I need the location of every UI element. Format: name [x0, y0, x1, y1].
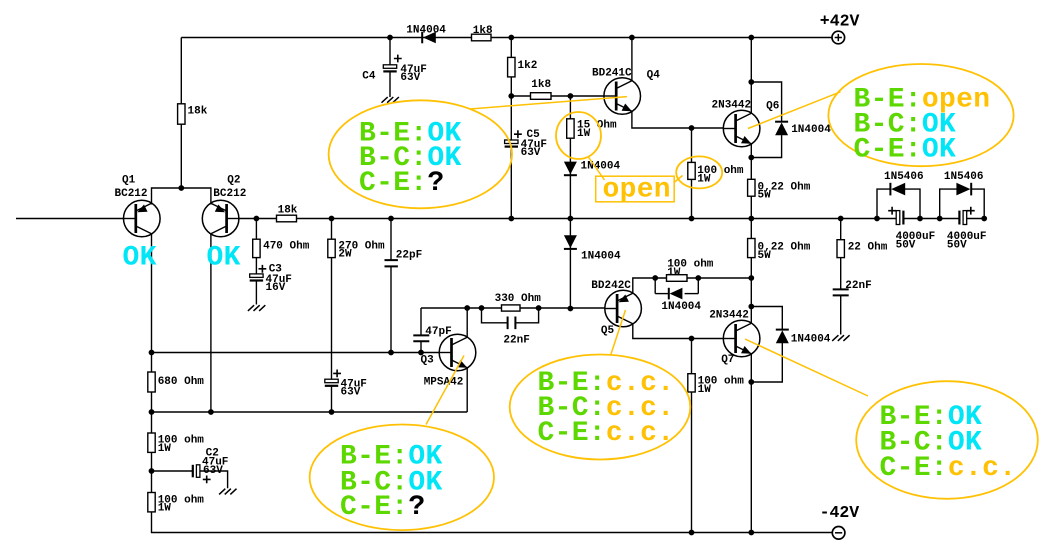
- wire Q1 collector / left column / -42V bottom rail: [152, 233, 833, 533]
- capacitor C3 47uF 16V: [250, 274, 263, 281]
- svg-text:18k: 18k: [188, 106, 208, 118]
- svg-text:1k8: 1k8: [531, 79, 551, 91]
- svg-text:BC212: BC212: [213, 188, 246, 200]
- wire Q3 collector to Q5 base: [467, 307, 605, 309]
- resistor 680 Ohm: [148, 372, 155, 392]
- plus C3: [259, 265, 267, 273]
- svg-text:C-E:c.c.: C-E:c.c.: [880, 453, 1017, 484]
- wire Q7 protection diode upper: [751, 307, 782, 331]
- wire bias diode chain branch: [569, 96, 571, 309]
- diode 1N4004 bias chain lower: [564, 235, 577, 249]
- capacitor C5 47uF 63V: [505, 140, 518, 147]
- svg-text:open: open: [603, 175, 671, 206]
- svg-text:18k: 18k: [278, 204, 298, 216]
- node Q6 collector / diode: [748, 79, 754, 85]
- node diode chain / mid rail: [568, 216, 574, 222]
- node 47uF / lower line: [329, 409, 335, 415]
- svg-text:1k2: 1k2: [518, 60, 538, 72]
- wire 22 Ohm branch: [840, 219, 842, 290]
- resistor 470 Ohm: [253, 239, 260, 257]
- annotation ellipse around 100 ohm: [676, 156, 722, 188]
- wire 47uF cap to lower line: [331, 386, 333, 412]
- svg-text:+42V: +42V: [820, 11, 860, 30]
- wire 22pF branch lower: [390, 266, 392, 352]
- svg-text:C-E:?: C-E:?: [340, 492, 426, 523]
- diode 1N4004 top rail: [422, 32, 436, 44]
- plus C4: [394, 55, 402, 63]
- svg-text:Q1: Q1: [122, 175, 136, 187]
- svg-text:C-E:OK: C-E:OK: [854, 135, 957, 166]
- annotation ellipse Q5 c.c.: [510, 355, 691, 460]
- node Q7 emitter / bottom rail: [748, 530, 754, 536]
- diode 1N4004 bias chain upper: [564, 162, 577, 176]
- wire Q4 collector lead: [631, 38, 633, 82]
- svg-text:2W: 2W: [338, 248, 352, 260]
- node 22pF / mid rail: [388, 216, 394, 222]
- annotation box open: [596, 176, 675, 202]
- capacitor 47pF: [413, 335, 429, 341]
- node 680 Ohm / lower line: [149, 409, 155, 415]
- node C2 branch: [149, 468, 155, 474]
- svg-text:63V: 63V: [400, 72, 420, 84]
- wire Q7 emitter down to bottom rail: [750, 354, 752, 533]
- node 270 Ohm / mid rail: [329, 216, 335, 222]
- capacitor 4000uF 50V left (in rail): [896, 211, 903, 225]
- wire 100 ohm 1W branch Q7 base to bottom rail: [691, 339, 693, 533]
- node 100ohm-diode left: [652, 275, 658, 281]
- svg-text:BC212: BC212: [115, 188, 148, 200]
- svg-text:OK: OK: [123, 242, 157, 273]
- annotation ellipse Q4 B-E:OK B-C:OK C-E:?: [329, 100, 512, 208]
- svg-text:1N5406: 1N5406: [884, 171, 924, 183]
- node diode chain / Q5 base: [568, 306, 574, 312]
- wire Q5 emitter to rail: [633, 278, 752, 293]
- wire 100 ohm 1W branch Q4 emitter: [691, 128, 693, 219]
- svg-text:680 Ohm: 680 Ohm: [158, 376, 205, 388]
- ground under C3: [248, 305, 265, 311]
- node Q5 emitter rail: [748, 275, 754, 281]
- resistor 1k8 top rail: [472, 34, 492, 41]
- svg-text:C-E:c.c.: C-E:c.c.: [538, 418, 675, 449]
- wire from 1N4004 cathode: [685, 293, 699, 295]
- svg-text:C4: C4: [362, 71, 376, 83]
- leader ellipse to Q6: [748, 92, 841, 129]
- capacitor 22nF (horizontal, with 330 Ohm): [508, 317, 516, 330]
- annotation ellipse Q3 B-E:OK B-C:OK C-E:?: [310, 425, 494, 531]
- resistor 100 ohm 1W Q7 base: [688, 374, 695, 392]
- wire C5 to mid rail: [510, 147, 512, 219]
- transistor Q1 BC212 (PNP): [124, 200, 161, 237]
- diode 1N4004 across Q6: [775, 122, 788, 136]
- wire Q3 emitter lead: [466, 368, 468, 412]
- wire Q1-Q2 emitter tie: [152, 187, 211, 189]
- wire Q6 emitter through 0.22 Ohm to output rail: [750, 144, 752, 219]
- wire 22nF left stub: [482, 308, 508, 323]
- resistor 18k mid: [277, 215, 297, 222]
- diode 1N5406 left: [890, 183, 905, 196]
- resistor 0.22 Ohm 5W lower: [748, 239, 755, 258]
- svg-text:470 Ohm: 470 Ohm: [263, 241, 310, 253]
- terminal -42V: [832, 527, 845, 540]
- svg-text:1W: 1W: [577, 128, 591, 140]
- transistor Q5 BD242C (PNP): [605, 290, 642, 327]
- svg-text:1W: 1W: [158, 443, 172, 455]
- node 100 ohm / bottom rail: [689, 530, 695, 536]
- node 330 Ohm right: [536, 305, 542, 311]
- resistor 100 ohm 1W Q5: [667, 275, 688, 282]
- svg-text:C-E:?: C-E:?: [359, 168, 445, 199]
- node Q4 collector / top rail: [629, 35, 635, 41]
- wire 1k2 node to Q4 base: [511, 95, 604, 97]
- wire 47pF top to Q3 collector node: [421, 307, 467, 309]
- transistor Q7 2N3442 (NPN): [723, 320, 760, 357]
- node 100 ohm / mid rail: [689, 216, 695, 222]
- svg-text:1N4004: 1N4004: [791, 124, 831, 136]
- svg-text:1N4004: 1N4004: [661, 301, 701, 313]
- wire +42V top rail: [181, 37, 832, 39]
- transistor Q2 BC212 (PNP, mirrored): [202, 200, 239, 237]
- node Q1 collector / Q3 base line: [149, 350, 155, 356]
- svg-text:Q4: Q4: [647, 69, 661, 81]
- node 22 Ohm / mid rail: [838, 216, 844, 222]
- node 330 Ohm left: [479, 305, 485, 311]
- plus C2: [203, 476, 211, 484]
- svg-text:63V: 63V: [521, 147, 541, 159]
- svg-text:1k8: 1k8: [473, 25, 493, 37]
- wire second 1N5406 right arm: [971, 189, 985, 218]
- svg-text:1N5406: 1N5406: [944, 171, 984, 183]
- svg-text:22 Ohm: 22 Ohm: [848, 242, 888, 254]
- svg-text:5W: 5W: [758, 190, 772, 202]
- wire 270 Ohm branch down to 47uF cap: [331, 219, 333, 380]
- svg-text:330 Ohm: 330 Ohm: [495, 293, 542, 305]
- leader ellipse to Q4: [470, 97, 627, 109]
- transistor Q3 MPSA42 (NPN): [439, 334, 476, 371]
- svg-text:Q3: Q3: [421, 354, 435, 366]
- wire mid output rail left section: [239, 218, 896, 220]
- annotation ellipse Q6 B-E:open B-C:OK C-E:OK: [828, 64, 1013, 166]
- node 4000uF-2 right: [981, 216, 987, 222]
- svg-text:16V: 16V: [266, 282, 286, 294]
- transistor Q6 2N3442 (NPN): [723, 110, 760, 147]
- svg-text:1N4004: 1N4004: [581, 161, 621, 173]
- wire Q6 protection diode lower: [751, 135, 781, 157]
- svg-text:Q6: Q6: [766, 101, 779, 113]
- svg-text:50V: 50V: [896, 240, 916, 252]
- svg-text:2N3442: 2N3442: [709, 310, 749, 322]
- capacitor 47uF 63V mid: [325, 379, 338, 386]
- capacitor 22nF right: [833, 289, 849, 295]
- svg-text:22nF: 22nF: [503, 335, 529, 347]
- node 47pF / Q3 base line: [418, 350, 424, 356]
- annotation ellipse Q7 B-E:OK B-C:OK C-E:c.c.: [856, 381, 1038, 499]
- node Q7 base / 100 ohm: [689, 336, 695, 342]
- leader ellipse to Q7: [745, 339, 868, 396]
- resistor 15 Ohm 1W: [567, 119, 574, 138]
- resistor 0.22 Ohm 5W upper: [748, 179, 755, 196]
- wire to C2: [152, 470, 193, 472]
- transistor Q4 BD241C (NPN): [604, 78, 641, 115]
- svg-text:BD241C: BD241C: [592, 67, 632, 79]
- resistor 1k2: [508, 57, 515, 77]
- wire lower horizontal line: [152, 411, 468, 413]
- capacitor 22pF: [385, 260, 398, 266]
- wire first 1N5406 right arm: [905, 189, 921, 218]
- svg-text:1W: 1W: [697, 173, 711, 185]
- node Q3 collector: [464, 305, 470, 311]
- svg-text:50V: 50V: [947, 240, 967, 252]
- wire input to Q1 base: [16, 218, 124, 220]
- plus 4000uF right: [967, 207, 975, 215]
- wire Q1 emitter lead: [151, 187, 153, 204]
- wire left branch down to Q1/Q2 emitters: [180, 38, 182, 189]
- ground under C4: [382, 97, 399, 103]
- resistor 330 Ohm: [502, 305, 521, 311]
- svg-text:-42V: -42V: [820, 503, 860, 522]
- svg-text:BD242C: BD242C: [591, 280, 631, 292]
- node 22pF / Q3 base line: [388, 350, 394, 356]
- wire 470 Ohm branch: [255, 219, 257, 275]
- svg-text:1N4004: 1N4004: [581, 250, 621, 262]
- svg-text:5W: 5W: [758, 250, 772, 262]
- leader ellipse to Q5: [611, 310, 626, 354]
- wire Q5 collector to Q7 base: [633, 324, 724, 339]
- svg-text:1W: 1W: [158, 503, 172, 515]
- leader 15 Ohm ellipse to open box: [588, 157, 605, 181]
- terminal +42V: [832, 31, 845, 44]
- leader open box to 100 ohm ellipse: [674, 176, 683, 183]
- node Q4 emitter / 100 ohm: [689, 125, 695, 131]
- resistor 270 Ohm 2W: [328, 239, 335, 257]
- wire 100ohm/diode parallel right stub: [697, 278, 699, 294]
- node 1k2 / top rail: [508, 35, 514, 41]
- svg-text:22nF: 22nF: [845, 280, 871, 292]
- svg-text:Q7: Q7: [721, 354, 734, 366]
- wire to 1N4004 anode: [655, 293, 669, 295]
- resistor 22 Ohm: [837, 240, 844, 258]
- leader ellipse to Q3: [426, 356, 464, 425]
- capacitor 4000uF 50V right (in rail): [959, 211, 966, 225]
- wire Q3 collector lead: [466, 308, 468, 338]
- wire Q6 protection diode upper: [751, 82, 781, 122]
- svg-text:OK: OK: [207, 242, 241, 273]
- node Q7 emitter / diode: [748, 379, 754, 385]
- wire C2 to ground: [200, 471, 228, 488]
- resistor 100 ohm 1W Q4 emitter: [688, 162, 695, 179]
- wire C4 upper lead: [389, 38, 391, 65]
- wire second 1N5406 left arm: [940, 189, 958, 218]
- wire 22nF to ground: [840, 296, 842, 335]
- wire mid rail right of second 4000uF: [967, 218, 984, 220]
- svg-text:22pF: 22pF: [396, 249, 422, 261]
- wire Q3 base line: [152, 352, 440, 354]
- svg-text:1W: 1W: [667, 267, 681, 279]
- node C4 / top rail: [387, 35, 393, 41]
- wire first 1N5406 left arm: [877, 189, 891, 218]
- capacitor C2 47uF 63V (horizontal): [193, 465, 200, 478]
- diode 1N4004 across 100 ohm Q5: [669, 288, 683, 300]
- svg-text:63V: 63V: [203, 465, 223, 477]
- plus 4000uF left: [888, 207, 896, 215]
- svg-text:Q5: Q5: [601, 325, 615, 337]
- wire 47pF upper lead: [420, 308, 422, 336]
- svg-text:63V: 63V: [341, 387, 361, 399]
- resistor 18k upper: [178, 104, 185, 124]
- node Q2 collector / lower line: [208, 409, 214, 415]
- diode 1N4004 across Q7: [776, 330, 789, 344]
- ground under 22nF right: [832, 335, 849, 341]
- wire Q7 protection diode lower: [751, 343, 782, 382]
- wire mid rail between 4000uF caps: [903, 218, 959, 220]
- svg-text:2N3442: 2N3442: [712, 100, 752, 112]
- annotation ellipse around 15 Ohm: [556, 112, 601, 159]
- wire Q2 collector down to lower line: [210, 233, 212, 412]
- node output / mid rail: [748, 216, 754, 222]
- plus 47uF mid: [333, 370, 341, 378]
- wire 47pF lower lead: [420, 342, 422, 353]
- wire Q4 emitter to Q6 base: [632, 112, 724, 129]
- diode 1N5406 right: [956, 183, 971, 196]
- node 4000uF-2 left: [937, 216, 943, 222]
- wire output rail down through 0.22 Ohm to Q7 collector: [750, 219, 752, 324]
- wire Q2 emitter lead: [210, 187, 212, 204]
- node 4000uF-1 right: [917, 216, 923, 222]
- svg-text:1N4004: 1N4004: [791, 334, 831, 346]
- resistor 100 ohm 1W left upper: [148, 433, 155, 452]
- svg-text:1N4004: 1N4004: [406, 24, 446, 36]
- node 100ohm-diode right: [695, 275, 701, 281]
- node Q1-Q2 emitters / 18k: [178, 185, 184, 191]
- node C5 / mid rail: [508, 216, 514, 222]
- node Q6 rail / top rail: [748, 35, 754, 41]
- node Q6 emitter / diode: [748, 155, 754, 161]
- svg-text:47pF: 47pF: [425, 326, 451, 338]
- node 1k2 / 1k8: [508, 93, 514, 99]
- capacitor C4 47uF 63V: [383, 65, 396, 72]
- node Q7 diode upper: [748, 304, 754, 310]
- plus C5: [514, 130, 522, 138]
- resistor 1k8 Q4 base: [531, 93, 552, 100]
- wire 100ohm/diode parallel left stub: [654, 278, 656, 294]
- wire 22nF right stub: [516, 308, 539, 323]
- wire C3 to ground: [255, 281, 257, 305]
- resistor 100 ohm 1W left lower: [148, 493, 155, 512]
- wire +42V rail down to Q6 collector: [750, 38, 752, 114]
- svg-text:Q2: Q2: [227, 175, 240, 187]
- wire 22pF branch upper: [390, 219, 392, 261]
- node 1k8 / 15 Ohm: [568, 93, 574, 99]
- svg-text:1W: 1W: [698, 384, 712, 396]
- wire C4 to ground: [389, 72, 391, 98]
- ground under C2: [219, 489, 236, 495]
- wire 1k2 branch upper: [510, 38, 512, 141]
- node 4000uF-1 left: [874, 216, 880, 222]
- node 470 Ohm / mid rail: [254, 216, 260, 222]
- svg-text:MPSA42: MPSA42: [424, 376, 464, 388]
